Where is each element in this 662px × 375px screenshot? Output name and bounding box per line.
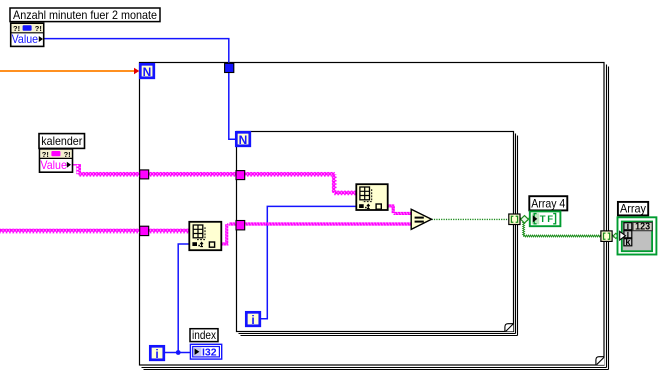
tunnel blue N count: [225, 63, 234, 72]
i terminal outer: [150, 346, 164, 361]
wire blue Value to inner N: [44, 39, 236, 140]
indicator Array 4 boolean array [TF]: [530, 211, 561, 226]
property node U1 Value (numeric): [11, 23, 44, 46]
wire string-array upper: [79, 172, 357, 195]
wire string element from index2 to equal: [388, 205, 412, 215]
svg-text:TF: TF: [540, 214, 555, 225]
svg-text:index: index: [192, 328, 216, 342]
svg-text:N: N: [143, 65, 152, 79]
svg-text:123: 123: [635, 222, 650, 233]
wire boolean dotted equal to tunnel: [432, 218, 510, 220]
index array node 2: [356, 184, 387, 210]
indicator Array (numeric array): [618, 217, 657, 254]
svg-text:Array: Array: [620, 202, 646, 216]
svg-text:kalender: kalender: [41, 134, 82, 148]
property node U2 Value (string array): [40, 149, 73, 172]
for-loop outer corner notch: [596, 357, 604, 365]
wire kalender Value stub: [73, 164, 81, 174]
label Array: [618, 202, 648, 216]
index array node 1: [189, 222, 221, 250]
i terminal inner: [246, 312, 259, 327]
label Array 4: [529, 196, 567, 210]
indicator index I32: [190, 344, 221, 359]
svg-text:Array 4: Array 4: [531, 196, 565, 210]
junction diamond 2: [613, 233, 618, 238]
svg-text:Value: Value: [40, 158, 67, 172]
tunnel magenta inner lower: [236, 221, 245, 230]
wire blue outer i to I32 and index input: [165, 244, 190, 355]
label index: [190, 328, 218, 342]
wire string element from index1 to equal: [221, 223, 411, 245]
wire string-array lower: [0, 229, 189, 234]
svg-text:Value: Value: [12, 32, 39, 46]
label kalender: [39, 134, 85, 149]
N terminal inner: [236, 132, 250, 147]
tunnel magenta outer lower: [140, 226, 149, 235]
svg-text:i: i: [155, 347, 158, 361]
N terminal outer: [140, 64, 154, 79]
tunnel magenta outer upper: [140, 170, 149, 179]
svg-text:N: N: [239, 133, 248, 147]
for-loop outer border: [140, 63, 609, 370]
for-loop inner corner notch: [505, 324, 513, 332]
label Anzahl minuten fuer 2 monate: [10, 8, 160, 22]
for-loop inner border: [237, 132, 518, 336]
equal? comparison node: [411, 209, 431, 229]
wire blue inner i to index input: [261, 206, 356, 318]
tunnel auto-index outer: [601, 231, 612, 242]
wire boolean-array to Array4 and out: [520, 218, 618, 237]
junction diamond 1: [521, 216, 529, 223]
wire orange count input: [0, 68, 139, 74]
svg-text:Anzahl minuten fuer 2 monate: Anzahl minuten fuer 2 monate: [13, 8, 157, 22]
svg-text:I32: I32: [202, 347, 217, 359]
tunnel magenta inner upper: [236, 171, 245, 180]
tunnel auto-index inner: [509, 214, 520, 225]
svg-text:i: i: [251, 313, 254, 327]
